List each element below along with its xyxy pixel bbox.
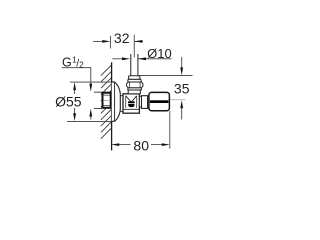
svg-text:32: 32	[114, 30, 130, 46]
svg-text:35: 35	[174, 80, 190, 96]
svg-text:2: 2	[79, 61, 84, 70]
svg-text:80: 80	[133, 138, 149, 154]
svg-text:Ø55: Ø55	[55, 93, 82, 109]
svg-text:Ø10: Ø10	[147, 46, 172, 61]
